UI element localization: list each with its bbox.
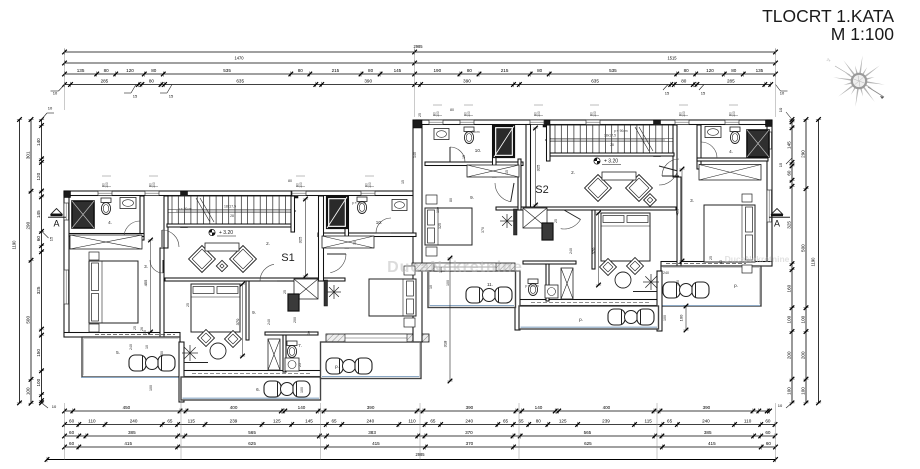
svg-text:140: 140 — [535, 405, 543, 410]
svg-text:100: 100 — [732, 111, 736, 117]
svg-text:240: 240 — [569, 248, 573, 254]
top dim chain row3 — [65, 73, 776, 75]
svg-text:115: 115 — [645, 419, 653, 424]
S1 stair break line — [196, 198, 210, 222]
svg-text:65: 65 — [667, 419, 673, 424]
svg-text:110: 110 — [88, 419, 96, 424]
svg-text:60: 60 — [765, 419, 771, 424]
S2 bedroom3 west wall — [677, 177, 681, 266]
svg-text:10: 10 — [145, 345, 149, 349]
svg-text:100: 100 — [537, 111, 541, 117]
svg-text:80: 80 — [684, 68, 690, 73]
svg-text:565: 565 — [248, 430, 256, 435]
svg-text:318: 318 — [443, 340, 448, 347]
S2 west-room north wall — [425, 162, 523, 166]
svg-text:635: 635 — [236, 79, 244, 84]
S2 armchair a — [626, 175, 653, 202]
svg-text:385: 385 — [128, 430, 136, 435]
svg-text:25: 25 — [133, 326, 137, 330]
S1 wc7 walls — [283, 332, 286, 372]
svg-text:80: 80 — [149, 79, 155, 84]
S2 north wall — [416, 120, 772, 125]
S2 west radiator — [514, 209, 518, 235]
svg-text:60: 60 — [69, 430, 75, 435]
left dim total 1190 — [19, 120, 21, 403]
S1 armchair b — [230, 246, 257, 273]
svg-text:+ 3.20: + 3.20 — [219, 230, 233, 236]
S2 west door — [495, 183, 511, 202]
svg-text:240: 240 — [129, 344, 133, 350]
S1 under-stair wall — [167, 224, 291, 227]
S2 bedroom9 door — [561, 220, 581, 229]
svg-text:390: 390 — [364, 79, 372, 84]
S2 wardrobe wing — [699, 165, 761, 181]
S1 bedroom3 door — [150, 260, 163, 273]
S1 east-room partition — [319, 196, 324, 281]
S2 west bed — [425, 208, 472, 245]
svg-text:1515: 1515 — [667, 56, 677, 61]
svg-text:60: 60 — [69, 419, 75, 424]
svg-text:p ≡ 90cm: p ≡ 90cm — [178, 207, 192, 211]
top dim leader 15 right b — [699, 85, 704, 91]
S2 wc7 toilet — [528, 279, 538, 296]
S1 dim 455 — [150, 240, 152, 332]
dim 100 vertical s2 — [685, 306, 687, 330]
top dim 1515 — [415, 62, 776, 64]
right dim leader 10 top — [786, 112, 792, 120]
svg-text:p ≡ 90cm: p ≡ 90cm — [352, 201, 366, 205]
svg-text:10: 10 — [778, 107, 783, 112]
S2 wc7 washer — [545, 285, 558, 298]
svg-text:p ≡ 90cm: p ≡ 90cm — [466, 130, 480, 134]
S2 stair break line — [635, 127, 649, 151]
svg-text:A: A — [774, 219, 780, 229]
svg-text:3.: 3. — [144, 264, 148, 269]
svg-text:2985: 2985 — [413, 44, 423, 49]
svg-text:240: 240 — [130, 419, 138, 424]
svg-text:450: 450 — [123, 405, 131, 410]
svg-text:200: 200 — [786, 351, 791, 359]
S1 east radiator — [324, 280, 328, 306]
S2 bath4 door — [701, 142, 717, 158]
svg-text:10: 10 — [48, 106, 53, 111]
svg-text:15: 15 — [133, 94, 138, 99]
svg-text:18x17,5: 18x17,5 — [224, 205, 236, 209]
svg-text:370: 370 — [466, 441, 474, 446]
right dim leader 15 — [786, 158, 792, 164]
S2 wc7 shaft — [561, 268, 573, 299]
svg-text:100: 100 — [800, 315, 805, 323]
S2 staircase — [550, 125, 674, 153]
section marker A right — [772, 209, 783, 215]
svg-text:535: 535 — [223, 68, 231, 73]
S2 wing south wall — [661, 262, 772, 267]
svg-text:110: 110 — [744, 419, 752, 424]
svg-text:S1: S1 — [281, 252, 294, 264]
S2 dining chair b — [627, 258, 644, 275]
S2 terrace 11 — [428, 271, 516, 308]
S2 corridor dim 325 — [535, 128, 537, 205]
S1 east hatched wall — [326, 334, 429, 342]
S2 living south wall — [511, 300, 662, 306]
left dim chain inner — [41, 120, 43, 403]
svg-text:100: 100 — [436, 111, 440, 117]
S2 window w6 — [725, 120, 739, 125]
S1 bath10 sink — [392, 200, 407, 211]
svg-text:325: 325 — [536, 164, 541, 171]
S2 east wall — [767, 120, 772, 266]
svg-text:635: 635 — [591, 79, 599, 84]
S2 bedroom3 door — [659, 171, 677, 185]
S2 west hatched wall — [412, 263, 515, 271]
S2 west terrace window — [434, 263, 496, 271]
svg-text:7.: 7. — [298, 343, 302, 348]
S2 nightstand b — [742, 265, 752, 273]
bottom dim total 2985 — [47, 459, 776, 461]
svg-text:28: 28 — [230, 214, 234, 218]
svg-text:80: 80 — [681, 79, 687, 84]
svg-text:TLOCRT 1.KATA: TLOCRT 1.KATA — [762, 6, 894, 26]
svg-text:25: 25 — [283, 290, 287, 294]
S1 light shaft — [327, 197, 347, 228]
svg-text:80: 80 — [151, 68, 157, 73]
svg-text:150: 150 — [160, 351, 164, 357]
S1 west wall window b — [64, 270, 69, 304]
S1 dining chair b — [225, 331, 242, 348]
S2 bath4 south wall — [697, 158, 768, 161]
svg-text:190: 190 — [433, 68, 441, 73]
top dim chain row4 — [65, 84, 771, 86]
svg-text:1190: 1190 — [811, 257, 816, 267]
S1 east nightstand a — [404, 266, 415, 275]
S2 dining chair a — [600, 259, 617, 276]
svg-text:DucaNekretnine: DucaNekretnine — [387, 259, 523, 276]
S2 wc7 walls — [546, 261, 549, 301]
svg-text:325: 325 — [36, 286, 41, 294]
S1 wing south wall — [64, 333, 180, 338]
svg-text:240: 240 — [267, 319, 271, 325]
column S1 stair b — [291, 191, 298, 198]
svg-text:3.: 3. — [690, 198, 694, 203]
S2 bath4 shower — [747, 130, 769, 157]
svg-text:S2: S2 — [535, 184, 548, 196]
left dim chain middle — [30, 120, 32, 404]
S1 mid wall horizontal — [165, 278, 345, 281]
S1 window w1 — [98, 191, 112, 196]
svg-text:80: 80 — [288, 179, 292, 183]
svg-text:80: 80 — [731, 68, 737, 73]
svg-text:26: 26 — [140, 327, 144, 331]
svg-text:p.: p. — [579, 317, 583, 322]
svg-text:110: 110 — [408, 419, 416, 424]
svg-text:M 1:100: M 1:100 — [831, 24, 894, 44]
S1 east-room north wall — [318, 233, 416, 237]
svg-text:500: 500 — [25, 316, 30, 324]
svg-text:455: 455 — [143, 279, 148, 286]
svg-text:285: 285 — [101, 79, 109, 84]
svg-text:535: 535 — [609, 68, 617, 73]
svg-text:100: 100 — [300, 387, 304, 393]
top dim leader 15 right a — [663, 85, 668, 91]
S1 bed9 east wall — [246, 281, 249, 340]
svg-text:100: 100 — [467, 111, 471, 117]
svg-text:10: 10 — [719, 260, 723, 264]
svg-text:60: 60 — [69, 441, 75, 446]
S1 level marker +3.20 — [209, 229, 215, 235]
S1 east door — [330, 254, 346, 273]
svg-text:65: 65 — [518, 419, 524, 424]
svg-text:65: 65 — [167, 419, 173, 424]
svg-text:10.: 10. — [475, 148, 481, 153]
svg-text:100: 100 — [682, 111, 686, 117]
svg-text:10.: 10. — [376, 220, 382, 225]
svg-text:385: 385 — [704, 430, 712, 435]
svg-text:6.: 6. — [256, 387, 260, 392]
top dim total 2985 — [65, 51, 776, 53]
S2 east wall window a — [767, 132, 772, 149]
svg-text:415: 415 — [372, 441, 380, 446]
S2 bath4 sink — [705, 127, 721, 138]
S2 stair east wall — [673, 125, 677, 177]
watermark — [387, 254, 790, 276]
svg-text:10: 10 — [53, 91, 58, 96]
svg-text:5.: 5. — [116, 350, 120, 355]
svg-text:301: 301 — [25, 151, 30, 159]
svg-text:2985: 2985 — [415, 452, 425, 457]
S1 terrace 6 — [181, 377, 321, 400]
svg-text:325: 325 — [438, 223, 442, 229]
S2 window w1 — [429, 120, 443, 125]
svg-text:415: 415 — [124, 441, 132, 446]
S2 bed bedroom9 — [601, 213, 650, 261]
svg-text:100: 100 — [800, 387, 805, 395]
S2 light shaft — [494, 126, 514, 157]
left dim leader 15 — [42, 231, 49, 238]
S2 bath10 east wall — [493, 125, 497, 177]
S2 hall wall — [547, 125, 551, 161]
svg-text:135: 135 — [77, 68, 85, 73]
svg-text:60: 60 — [36, 236, 41, 242]
S2 bed bedroom3 — [704, 205, 755, 262]
S2 terrace11 east wall — [515, 271, 520, 330]
svg-text:100: 100 — [36, 378, 41, 386]
right dim leaders bottom — [786, 403, 792, 408]
left dim leader 10 top — [42, 113, 48, 120]
S1 nightstand a — [89, 252, 99, 260]
S2 window w3 — [530, 120, 544, 125]
S1 terrace 6 sliding door — [192, 373, 310, 375]
svg-text:p.: p. — [335, 364, 339, 369]
svg-text:p ≡ 90cm: p ≡ 90cm — [525, 284, 539, 288]
S2 corridor closet — [523, 208, 547, 228]
S1 wc7 washer — [285, 358, 299, 371]
svg-text:100: 100 — [149, 385, 153, 391]
S1 corridor dim 325 — [305, 199, 307, 276]
S1 bed bedroom9 — [191, 284, 240, 332]
svg-text:135: 135 — [756, 68, 764, 73]
svg-text:383: 383 — [368, 430, 376, 435]
svg-text:145: 145 — [394, 68, 402, 73]
svg-text:25: 25 — [554, 219, 558, 223]
svg-text:390: 390 — [463, 79, 471, 84]
party wall — [413, 120, 422, 342]
svg-text:200: 200 — [800, 351, 805, 359]
S2 armchair b — [585, 175, 612, 202]
svg-text:1470: 1470 — [234, 56, 244, 61]
svg-text:60: 60 — [786, 170, 791, 176]
svg-text:10: 10 — [429, 285, 433, 289]
S1 stair west wall — [164, 196, 168, 248]
S2 tv bench — [602, 172, 636, 180]
S1 corridor closet — [294, 279, 318, 299]
S2 corridor shaft — [542, 223, 553, 240]
S2 main terrace — [519, 306, 659, 329]
svg-text:80: 80 — [449, 198, 453, 202]
right dim chain inner — [791, 120, 793, 403]
svg-text:325: 325 — [786, 221, 791, 229]
svg-text:1190: 1190 — [12, 240, 17, 250]
S1 bath4 east wall — [140, 196, 144, 240]
S1 bath10 door — [376, 218, 391, 233]
S1 side table — [216, 260, 227, 271]
svg-text:80: 80 — [467, 68, 473, 73]
svg-text:80: 80 — [104, 68, 110, 73]
S1 bath4 door — [124, 221, 140, 237]
svg-text:400: 400 — [230, 405, 238, 410]
svg-text:500: 500 — [800, 244, 805, 252]
S1 west wall — [64, 191, 69, 337]
svg-text:390: 390 — [367, 405, 375, 410]
S1 terrace 5 sliding door — [95, 334, 175, 336]
svg-text:100: 100 — [786, 315, 791, 323]
S1 terrace6 west wall — [179, 342, 184, 402]
svg-text:115: 115 — [188, 419, 196, 424]
svg-text:15: 15 — [401, 180, 405, 184]
svg-text:100: 100 — [299, 182, 303, 188]
S1 dim 370 — [242, 284, 244, 356]
S1 window w3 — [292, 191, 306, 196]
svg-text:120: 120 — [126, 68, 134, 73]
svg-text:15: 15 — [353, 241, 357, 245]
top dim leader 10 right — [776, 85, 781, 92]
S1 nightstand b — [89, 324, 99, 332]
svg-text:15: 15 — [701, 91, 706, 96]
svg-text:65: 65 — [503, 419, 509, 424]
S1 wardrobe wing — [70, 235, 142, 249]
dim 318 vertical — [449, 258, 451, 381]
S1 wc7 toilet — [287, 341, 297, 358]
svg-text:25: 25 — [186, 303, 190, 307]
svg-text:100: 100 — [436, 207, 440, 213]
S2 main terrace chairs — [608, 309, 625, 325]
svg-text:240: 240 — [465, 419, 473, 424]
svg-text:150: 150 — [676, 280, 680, 286]
S2 dining table — [615, 272, 631, 288]
S2 window w4 — [586, 120, 600, 125]
svg-text:290: 290 — [800, 150, 805, 158]
column party top — [413, 120, 422, 128]
svg-text:25: 25 — [418, 113, 422, 117]
S2 west wardrobe — [467, 165, 519, 177]
S1 east wardrobe — [322, 236, 374, 248]
svg-text:140: 140 — [413, 152, 417, 158]
S1 east bed — [369, 279, 416, 316]
svg-text:DucaNekretnine: DucaNekretnine — [725, 254, 790, 264]
svg-text:28: 28 — [610, 143, 614, 147]
svg-text:240: 240 — [366, 419, 374, 424]
S2 bath4 toilet — [730, 127, 740, 144]
north sun symbol — [866, 81, 885, 85]
S1 terrace6 chairs — [264, 381, 281, 397]
svg-text:125: 125 — [273, 419, 281, 424]
svg-text:140: 140 — [298, 405, 306, 410]
column S1 nw — [64, 191, 71, 198]
column S2 stair a — [654, 120, 661, 127]
svg-text:240: 240 — [702, 419, 710, 424]
svg-text:100: 100 — [679, 314, 684, 321]
svg-text:239: 239 — [230, 419, 238, 424]
section marker A left — [51, 209, 62, 215]
S2 stair door — [662, 159, 679, 176]
S2 corridor west wall — [526, 125, 531, 208]
S1 stair door — [162, 230, 179, 247]
S1 north wall — [64, 191, 416, 196]
S1 bath4 sink — [120, 198, 136, 209]
svg-text:25: 25 — [709, 256, 713, 260]
S2 window w5 — [675, 120, 689, 125]
S2 bath10 door — [450, 147, 465, 162]
svg-text:65: 65 — [331, 419, 337, 424]
svg-text:140: 140 — [36, 138, 41, 146]
svg-text:80: 80 — [368, 68, 374, 73]
svg-text:30: 30 — [307, 331, 311, 335]
svg-text:100: 100 — [663, 315, 667, 321]
bottom dim chain row4 — [65, 446, 776, 448]
S1 bath10 west wall — [345, 196, 349, 248]
S1 se terrace window — [345, 334, 407, 342]
svg-text:390: 390 — [466, 405, 474, 410]
S2 palm plant — [650, 274, 652, 282]
S2 side table — [644, 194, 657, 207]
S2 east wall window b — [767, 190, 772, 222]
S1 east plant — [333, 285, 335, 292]
svg-text:215: 215 — [501, 68, 509, 73]
S1 window w4 — [361, 191, 375, 196]
svg-text:625: 625 — [584, 441, 592, 446]
S2 west-room partition — [518, 159, 521, 210]
S1 bath10 toilet — [357, 197, 367, 214]
S2 dim 370 — [598, 213, 600, 285]
S2 bed9 west wall — [592, 210, 595, 269]
svg-text:625: 625 — [248, 441, 256, 446]
S2 level marker +3.20 — [594, 158, 600, 164]
bottom dim chain row2 — [65, 424, 776, 426]
svg-text:4.: 4. — [729, 149, 733, 154]
column S2 ne — [766, 120, 773, 127]
left dim leader 10 bottom — [42, 403, 49, 408]
svg-text:p ≡ 90cm: p ≡ 90cm — [614, 129, 628, 133]
S1 east nightstand b — [404, 318, 415, 327]
S1 bath4 toilet — [101, 198, 111, 215]
svg-text:15: 15 — [778, 162, 783, 167]
svg-text:2.: 2. — [571, 170, 575, 175]
S1 bath4 shower — [72, 201, 94, 228]
S1 palm plant — [189, 345, 191, 353]
top dim 1470 — [65, 62, 415, 64]
svg-text:60: 60 — [766, 441, 772, 446]
svg-text:60: 60 — [765, 430, 771, 435]
svg-text:100: 100 — [368, 182, 372, 188]
